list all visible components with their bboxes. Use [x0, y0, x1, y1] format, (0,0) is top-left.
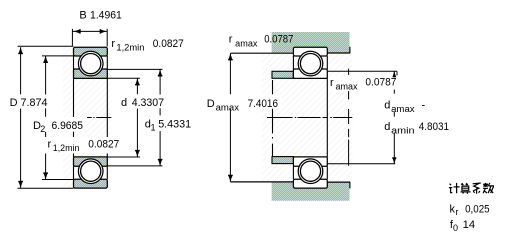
- svg-text:0.0787: 0.0787: [365, 77, 396, 89]
- dim d1 extension lines: [107, 68, 162, 70]
- svg-text:r: r: [455, 207, 458, 217]
- svg-text:-: -: [422, 99, 426, 111]
- dim D line: [20, 47, 22, 94]
- char shu: [483, 183, 494, 193]
- right housing top outline: [230, 52, 293, 54]
- svg-text:1.4961: 1.4961: [90, 9, 122, 21]
- svg-text:0: 0: [453, 223, 458, 233]
- text box D: [6, 95, 50, 109]
- svg-text:amin: amin: [391, 125, 415, 135]
- svg-text:d: d: [384, 99, 390, 111]
- right bearing face lines between rings: [292, 56, 294, 69]
- da level line bottom: [327, 163, 395, 165]
- dim d arrows: [135, 78, 139, 85]
- svg-text:0.0827: 0.0827: [153, 38, 184, 50]
- right bearing inner ring bottom: [293, 157, 327, 166]
- right bearing inner ring top: [293, 69, 327, 78]
- left bearing outer ring top: [74, 47, 108, 56]
- right bearing outer ring top: [293, 47, 327, 56]
- left bearing groove circle top: [78, 51, 103, 76]
- svg-text:0.0827: 0.0827: [88, 139, 119, 151]
- dim d extension lines: [107, 77, 140, 79]
- svg-text:B: B: [79, 9, 86, 21]
- svg-text:d: d: [384, 121, 390, 133]
- left bearing bore face lines: [73, 78, 75, 156]
- svg-text:1,2min: 1,2min: [53, 143, 80, 153]
- char xi: [473, 183, 481, 194]
- dim D arrows: [19, 47, 23, 54]
- text box d: [118, 95, 167, 109]
- dim Damax arrows: [228, 53, 232, 60]
- dim B arrow right: [100, 29, 107, 33]
- text box d1: [142, 116, 197, 131]
- right bearing bore face line: [326, 78, 328, 156]
- svg-text:amax: amax: [235, 39, 258, 49]
- svg-text:1: 1: [151, 123, 156, 133]
- right centerline: [267, 117, 352, 119]
- dim D2 arrows: [44, 56, 48, 63]
- left bearing inner ring top: [74, 69, 108, 78]
- svg-text:6.9685: 6.9685: [52, 120, 84, 132]
- svg-text:7.874: 7.874: [21, 97, 48, 109]
- left bearing face lines between rings: [73, 56, 75, 69]
- svg-text:D: D: [207, 98, 215, 110]
- dim d line: [136, 78, 138, 94]
- text box damin: [382, 117, 451, 133]
- damin dim line: [393, 71, 395, 163]
- svg-text:amax: amax: [391, 104, 415, 114]
- da level line top: [327, 70, 397, 72]
- char suan: [461, 183, 471, 194]
- right bearing groove circle bottom: [298, 159, 323, 184]
- svg-text:7.4016: 7.4016: [248, 98, 278, 110]
- right shaft edge line: [272, 80, 274, 157]
- dim d1 line: [159, 70, 161, 116]
- damax center dash line: [348, 69, 350, 166]
- svg-text:0.0787: 0.0787: [264, 33, 293, 45]
- dim B arrow left: [74, 29, 81, 33]
- left centerline: [87, 117, 111, 119]
- text box r top: [109, 34, 187, 54]
- svg-text:14: 14: [463, 219, 476, 231]
- left bearing ball top: [81, 54, 101, 74]
- dim D2 line: [45, 56, 47, 117]
- svg-text:1,2min: 1,2min: [116, 43, 144, 53]
- char ji: [449, 183, 460, 193]
- left bearing inner ring bottom: [74, 157, 108, 166]
- hatch field right view: [262, 53, 353, 182]
- svg-text:0,025: 0,025: [465, 204, 490, 216]
- dim B extension lines: [71, 29, 73, 46]
- right housing top: [272, 32, 350, 53]
- svg-text:4.8031: 4.8031: [419, 121, 449, 133]
- left bearing ball bottom: [81, 161, 101, 181]
- text box D2: [29, 117, 87, 132]
- svg-text:r: r: [111, 38, 115, 50]
- svg-text:r: r: [330, 77, 334, 89]
- svg-text:r: r: [229, 33, 233, 45]
- dim B line: [72, 30, 107, 32]
- svg-text:amax: amax: [336, 82, 358, 92]
- svg-text:d: d: [121, 97, 127, 109]
- svg-text:D: D: [10, 97, 18, 109]
- left bearing groove circle bottom: [78, 159, 103, 184]
- right bearing groove circle top: [298, 51, 323, 76]
- right bearing ball top: [300, 54, 320, 74]
- text box r amax mid: [329, 76, 360, 91]
- right bearing outer ring bottom: [293, 179, 327, 188]
- right shaft strip bottom: [272, 157, 293, 164]
- chinese heading: 计算系数 hand drawn: [449, 183, 494, 194]
- right housing bottom: [272, 182, 350, 201]
- text box Damax: [202, 95, 282, 109]
- dim d1 arrows: [158, 70, 162, 77]
- hatch field left view: [63, 47, 111, 188]
- right bearing ball bottom: [300, 161, 320, 181]
- dim D extension lines: [18, 45, 74, 47]
- svg-text:4.3307: 4.3307: [132, 97, 164, 109]
- svg-text:r: r: [48, 139, 52, 151]
- text box damax: [382, 97, 428, 112]
- svg-text:5.4331: 5.4331: [158, 119, 191, 131]
- svg-text:amax: amax: [216, 102, 240, 112]
- dim Damax line: [229, 53, 231, 94]
- dim D2 extension lines: [42, 55, 74, 57]
- right shaft strip top: [272, 71, 293, 78]
- left bearing outer ring bottom: [74, 179, 108, 188]
- right housing bottom outline: [230, 181, 293, 183]
- svg-text:2: 2: [40, 124, 45, 134]
- text box r bottom: [45, 137, 125, 154]
